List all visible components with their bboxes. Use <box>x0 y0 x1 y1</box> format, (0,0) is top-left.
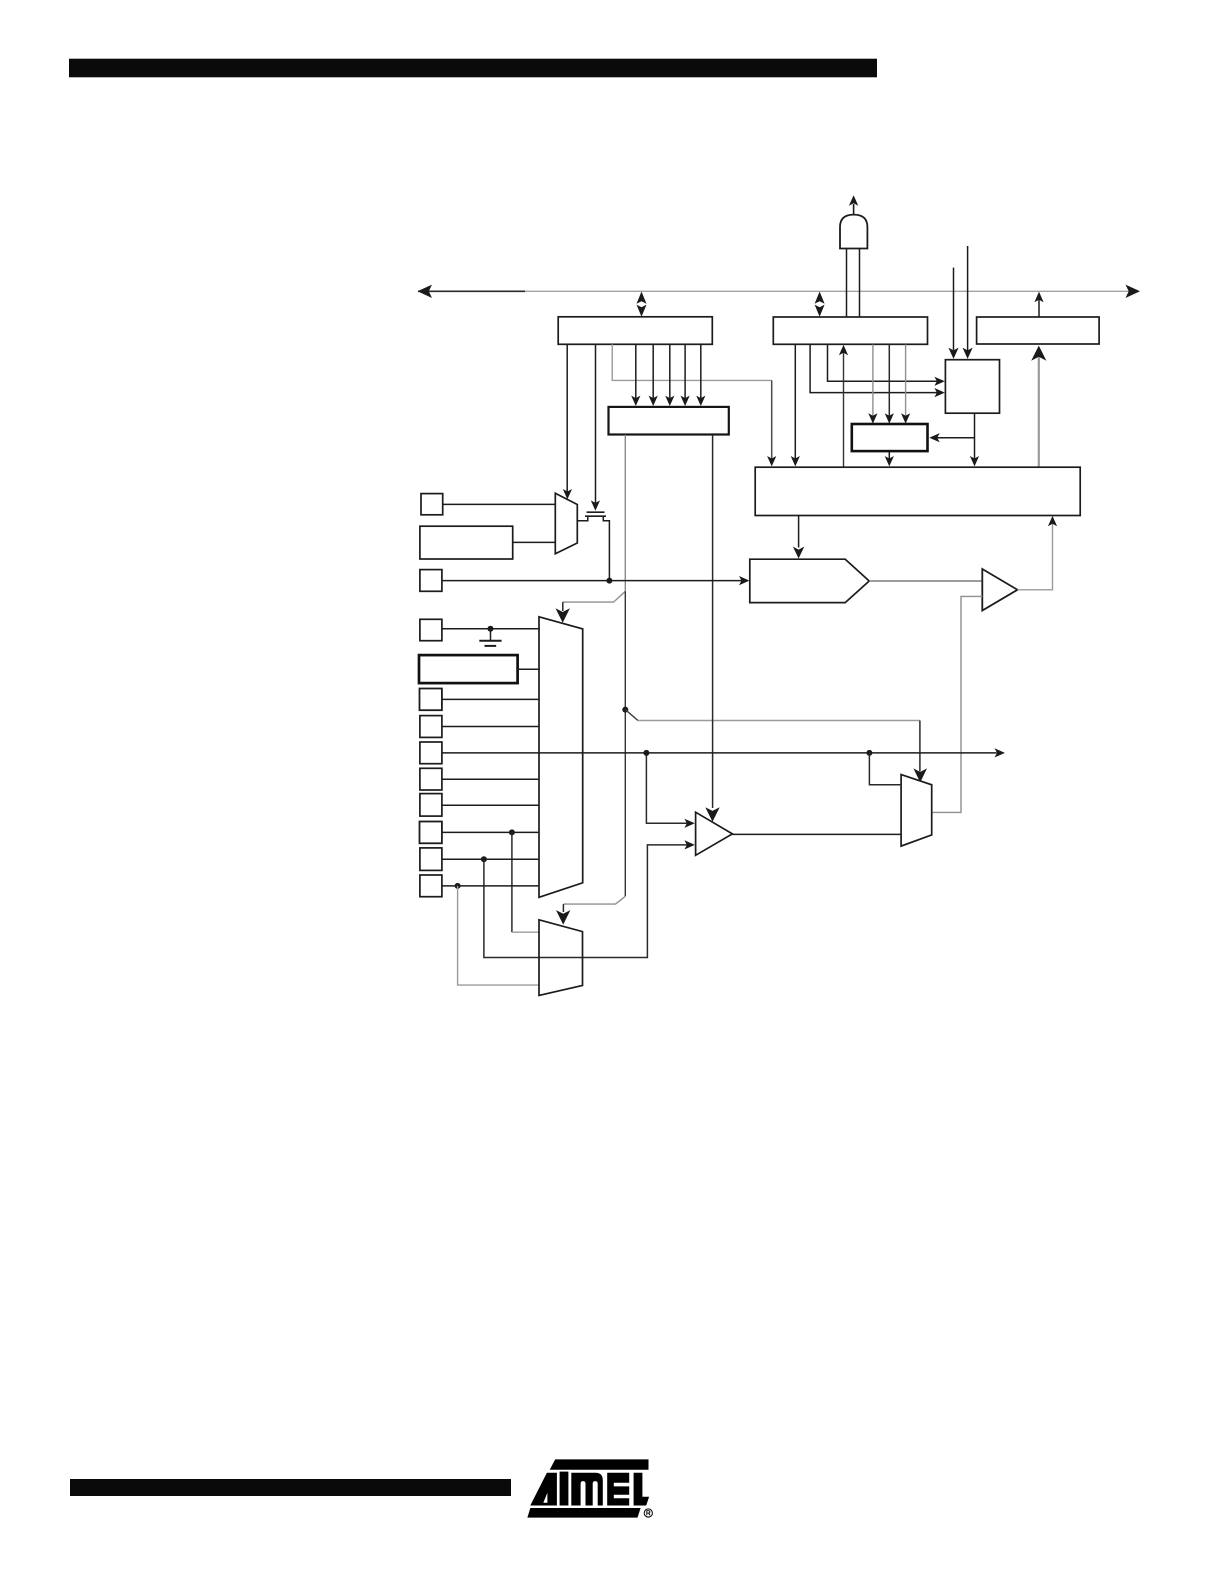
junction: AGND node <box>488 626 494 632</box>
wire: internal reference to reference mux <box>513 541 556 543</box>
pin: ADC6 input square <box>420 716 442 738</box>
wire: data register output line A (REFS to reference mux) <box>563 344 572 499</box>
wire: ADSC line 2 to conversion logic <box>885 345 894 424</box>
header rule bar <box>69 59 877 78</box>
wire: decoder input arrow 3 <box>665 344 674 406</box>
wire: channel selection vertical continues <box>624 591 626 896</box>
component: gain amplifier triangle <box>696 812 733 855</box>
pin: ADC3 input square <box>420 794 442 817</box>
wire: trigger select line 1 into prescaler <box>948 268 958 359</box>
wire: prescaler clock branch to conversion logic <box>929 433 974 442</box>
wire: AVCC to reference mux <box>443 503 556 505</box>
wire: ADATE line 3 to conversion logic <box>901 345 910 424</box>
pin: ADC5 input square <box>420 742 442 764</box>
box: conversion logic (thick border) <box>852 424 928 451</box>
junction: positive mux output node <box>643 750 649 756</box>
pin: ADC7 input square <box>420 689 442 711</box>
wire: ADC4 line <box>442 778 540 780</box>
wire: ADC6 line <box>442 726 540 728</box>
box: internal reference <box>420 526 513 559</box>
box: sample and hold comparator / 10-bit DAC container <box>755 467 1080 515</box>
wire: branch rip to negative input mux <box>556 896 625 924</box>
wire: comparator output feedback up into sample/hold box <box>1018 516 1058 590</box>
wire: conversion logic output to sample/hold box <box>885 451 894 466</box>
wire: MUX selection feedback big arrow into ADMUX <box>1031 346 1046 468</box>
wire: sample/hold output arrow into DAC <box>793 516 804 559</box>
wire: DAC output to comparator plus input <box>869 580 982 582</box>
wire: ADC2 branch to negative input mux <box>512 832 540 932</box>
wire: single-ended branch into selection mux <box>869 753 901 785</box>
wire: ADSC line 1 to conversion logic <box>868 345 877 424</box>
wire: trigger select line 2 into prescaler <box>963 246 973 359</box>
pin: ADC4 input square <box>420 768 442 790</box>
ground symbol <box>479 629 501 646</box>
wire: ADC5 line and ADC multiplexer output arrow <box>442 748 1005 757</box>
wire: AREF line to DAC <box>442 576 750 585</box>
wire: AND gate input leg (ADIF) <box>859 249 861 318</box>
wire: ADMUX to data bus arrow <box>1034 292 1043 317</box>
wire: ADC0 branch to negative input mux <box>458 886 540 985</box>
wire: ADEN line from ADCSRA to sample/hold box <box>791 345 800 467</box>
wire: AND gate input leg (ADIE) <box>846 249 848 318</box>
wire: ADPS line 1 from ADCSRA to prescaler <box>810 345 945 398</box>
pin: ADC1 input square <box>420 848 442 871</box>
wire: gain selection vertical into gain amplifier <box>705 435 719 822</box>
register box: ADC control and status register (ADCSRA) <box>773 317 927 344</box>
wire: branch rip to single/differential selection mux <box>625 710 927 783</box>
wire: AGND line to positive input mux <box>442 628 540 630</box>
wire: bidirectional bus arrow at data register <box>637 292 647 317</box>
logo: Atmel <box>527 1459 649 1517</box>
junction: AREF node <box>606 578 612 584</box>
pin: AVCC input square <box>421 494 443 515</box>
wire: ADC0 line <box>442 885 540 887</box>
component: positive input mux trapezoid <box>539 617 583 898</box>
wire: data register output line B (to AVCC pass gate) <box>591 344 600 511</box>
wire: ADPS line 2 from ADCSRA to prescaler <box>828 345 945 386</box>
wire: ADC1 branch through negative mux to gain amp minus input <box>484 840 695 957</box>
wire: ADC1 line <box>442 858 540 860</box>
component: negative input mux trapezoid <box>539 920 583 996</box>
wire: comparator minus input from selection mux <box>932 596 983 812</box>
wire: decoder input arrow 5 <box>696 344 705 406</box>
pin: ADC2 input square <box>420 822 442 844</box>
box: internal 2.56V reference (thick border) <box>419 655 518 683</box>
wire: prescaler clock output down to sample/hold box <box>970 413 979 466</box>
wire: 8-bit data bus (horizontal) <box>418 285 1141 298</box>
wire: 2.56V reference to positive input mux <box>518 668 540 670</box>
component: sample/hold comparator triangle <box>982 569 1017 611</box>
wire: ADC3 line <box>442 804 540 806</box>
junction: ADC0 branch node <box>455 883 461 889</box>
AND gate U1 (ADC conversion complete IRQ) <box>840 195 867 248</box>
register box: ADC data register (ADCH/ADCL) <box>558 317 712 345</box>
register box: ADC multiplexer selection register (ADMUX) <box>977 317 1100 344</box>
pin: AREF input square <box>420 570 442 592</box>
junction: ADC2 branch node <box>509 829 515 835</box>
junction: channel selection node <box>622 707 628 713</box>
component: 10-bit DAC pentagon <box>750 559 869 602</box>
wire: positive mux output branch to gain amp plus input <box>646 753 694 828</box>
wire: ADC7 line <box>442 698 540 700</box>
wire: decoder input arrow 2 <box>649 344 658 406</box>
junction: single-ended branch node <box>866 750 872 756</box>
junction: ADC1 branch node <box>481 856 487 862</box>
wire: ADC2 line <box>442 831 540 833</box>
pin: ADC0 input square <box>420 875 442 897</box>
wire: branch rip to positive input mux <box>556 591 626 623</box>
box: prescaler <box>945 360 999 414</box>
component: single-ended / differential selection mux trapezoid <box>901 775 932 847</box>
transistor Q1: AVCC pass gate <box>577 512 609 580</box>
pin: AGND input square <box>420 619 442 640</box>
wire: bidirectional bus arrow at ADCSRA <box>815 292 825 317</box>
logo: registered trademark symbol <box>644 1509 652 1517</box>
component: reference selection mux trapezoid <box>555 493 577 554</box>
wire: gain amplifier output to selection mux <box>732 833 901 835</box>
wire: decoder input arrow 1 <box>631 344 640 406</box>
wire: decoder input arrow 4 <box>681 344 690 406</box>
wire: channel selection vertical (left) <box>624 435 626 592</box>
box: MUX decoder <box>609 407 729 435</box>
footer rule bar <box>70 1479 511 1496</box>
wire: gray L-line from data register to sample/hold box <box>612 344 776 466</box>
wire: ADIF status line up into ADCSRA <box>839 345 848 467</box>
